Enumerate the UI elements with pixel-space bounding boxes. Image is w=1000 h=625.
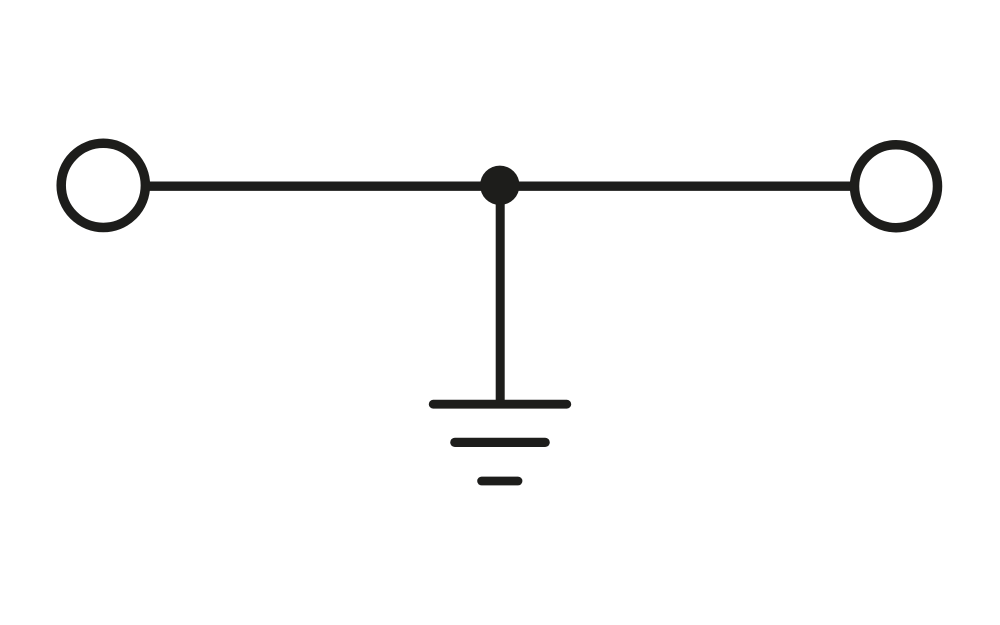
wire: vertical drop from junction to ground symbol (496, 186, 505, 404)
terminal 2: right terminal circle (855, 145, 938, 228)
wire: horizontal conductor between left and right terminals (103, 181, 896, 190)
ground: earth symbol middle bar (455, 438, 545, 447)
terminal 1: left terminal circle (61, 143, 145, 227)
node: junction dot (480, 166, 519, 205)
ground: earth symbol top bar (433, 400, 567, 409)
ground: earth symbol bottom bar (482, 477, 518, 486)
